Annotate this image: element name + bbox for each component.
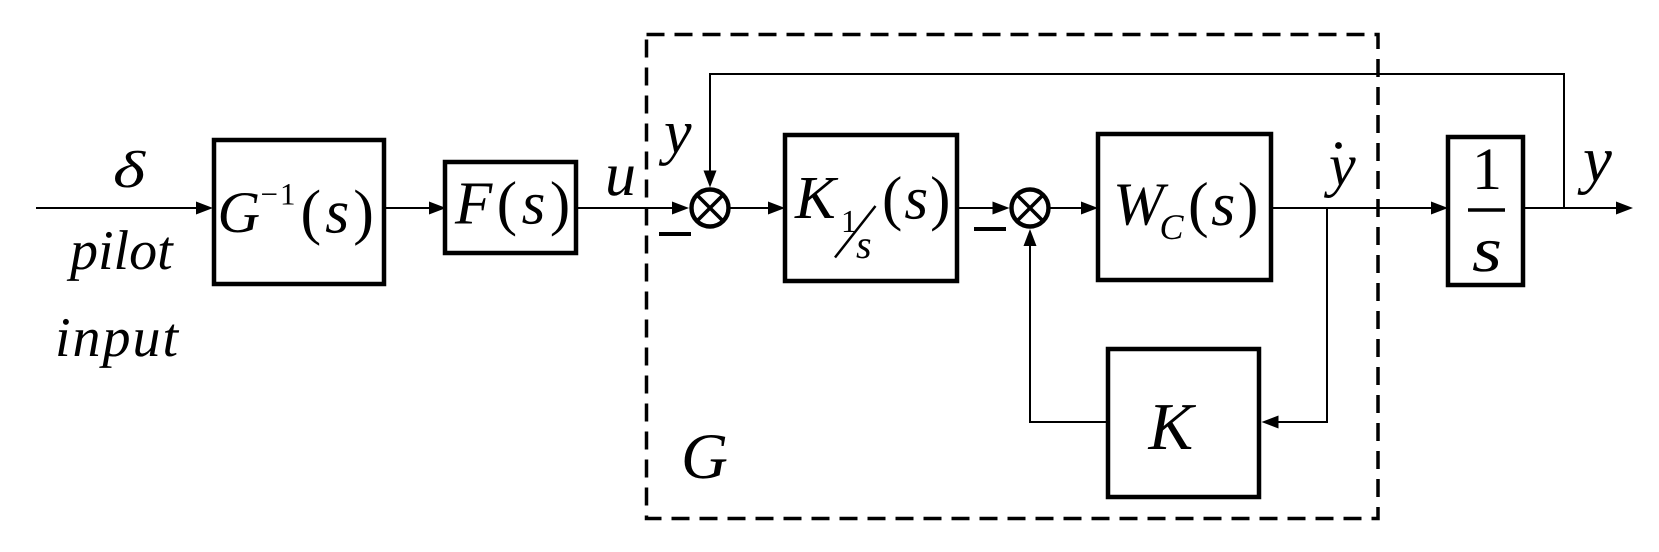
block F(s) bbox=[445, 162, 576, 253]
wire: F(s) to summing junction S1 bbox=[576, 202, 689, 215]
label minus at S1 bbox=[659, 232, 691, 236]
block W_C(s) bbox=[1098, 134, 1271, 280]
svg-text:−1: −1 bbox=[261, 177, 298, 212]
svg-text:s: s bbox=[856, 222, 872, 267]
svg-text:1: 1 bbox=[1472, 136, 1502, 202]
svg-text:(s): (s) bbox=[301, 179, 378, 247]
svg-text:G: G bbox=[218, 179, 261, 245]
svg-text:u: u bbox=[605, 141, 636, 209]
svg-text:y: y bbox=[658, 99, 692, 167]
svg-text:G: G bbox=[681, 421, 728, 493]
svg-text:K: K bbox=[794, 165, 839, 232]
wire: inner feedback from y-dot tap into K block bbox=[1262, 208, 1328, 429]
svg-text:F(s): F(s) bbox=[454, 171, 575, 238]
wire: K block output up into S2 bbox=[1024, 229, 1109, 422]
svg-text:K: K bbox=[1148, 390, 1197, 464]
wire: pilot input arrow into G^-1(s) bbox=[36, 202, 213, 215]
svg-text:y: y bbox=[1577, 124, 1612, 196]
block 1/s bbox=[1448, 136, 1523, 285]
wire: S1 to K_1/s(s) block bbox=[731, 202, 786, 215]
svg-text:C: C bbox=[1160, 207, 1185, 247]
svg-text:pilot: pilot bbox=[66, 220, 174, 282]
svg-text:(s): (s) bbox=[1188, 171, 1261, 239]
block G^-1(s) bbox=[214, 140, 384, 284]
summing junction S1 bbox=[692, 190, 729, 227]
summing junction S2 bbox=[1012, 190, 1049, 227]
svg-text:(s): (s) bbox=[882, 166, 952, 233]
block K bbox=[1108, 349, 1259, 497]
label y-dot bbox=[1323, 132, 1356, 198]
wire: S2 to W_C(s) bbox=[1051, 202, 1099, 215]
wire: output y arrow bbox=[1523, 202, 1633, 215]
label minus at S2 bbox=[974, 227, 1006, 231]
wire: outer feedback from output down into S1 bbox=[704, 74, 1565, 208]
wire: G^-1(s) to F(s) bbox=[384, 202, 446, 215]
wire: W_C(s) to 1/s block (with tap to inner feedback) bbox=[1271, 202, 1448, 215]
svg-text:input: input bbox=[55, 307, 180, 369]
svg-text:δ: δ bbox=[113, 142, 146, 199]
svg-text:s: s bbox=[1472, 214, 1502, 285]
dashed box G boundary bbox=[647, 35, 1379, 519]
wire: K_1/s(s) to summing junction S2 bbox=[957, 202, 1010, 215]
block K_1/s(s) bbox=[785, 135, 957, 281]
svg-text:y: y bbox=[1323, 132, 1356, 198]
